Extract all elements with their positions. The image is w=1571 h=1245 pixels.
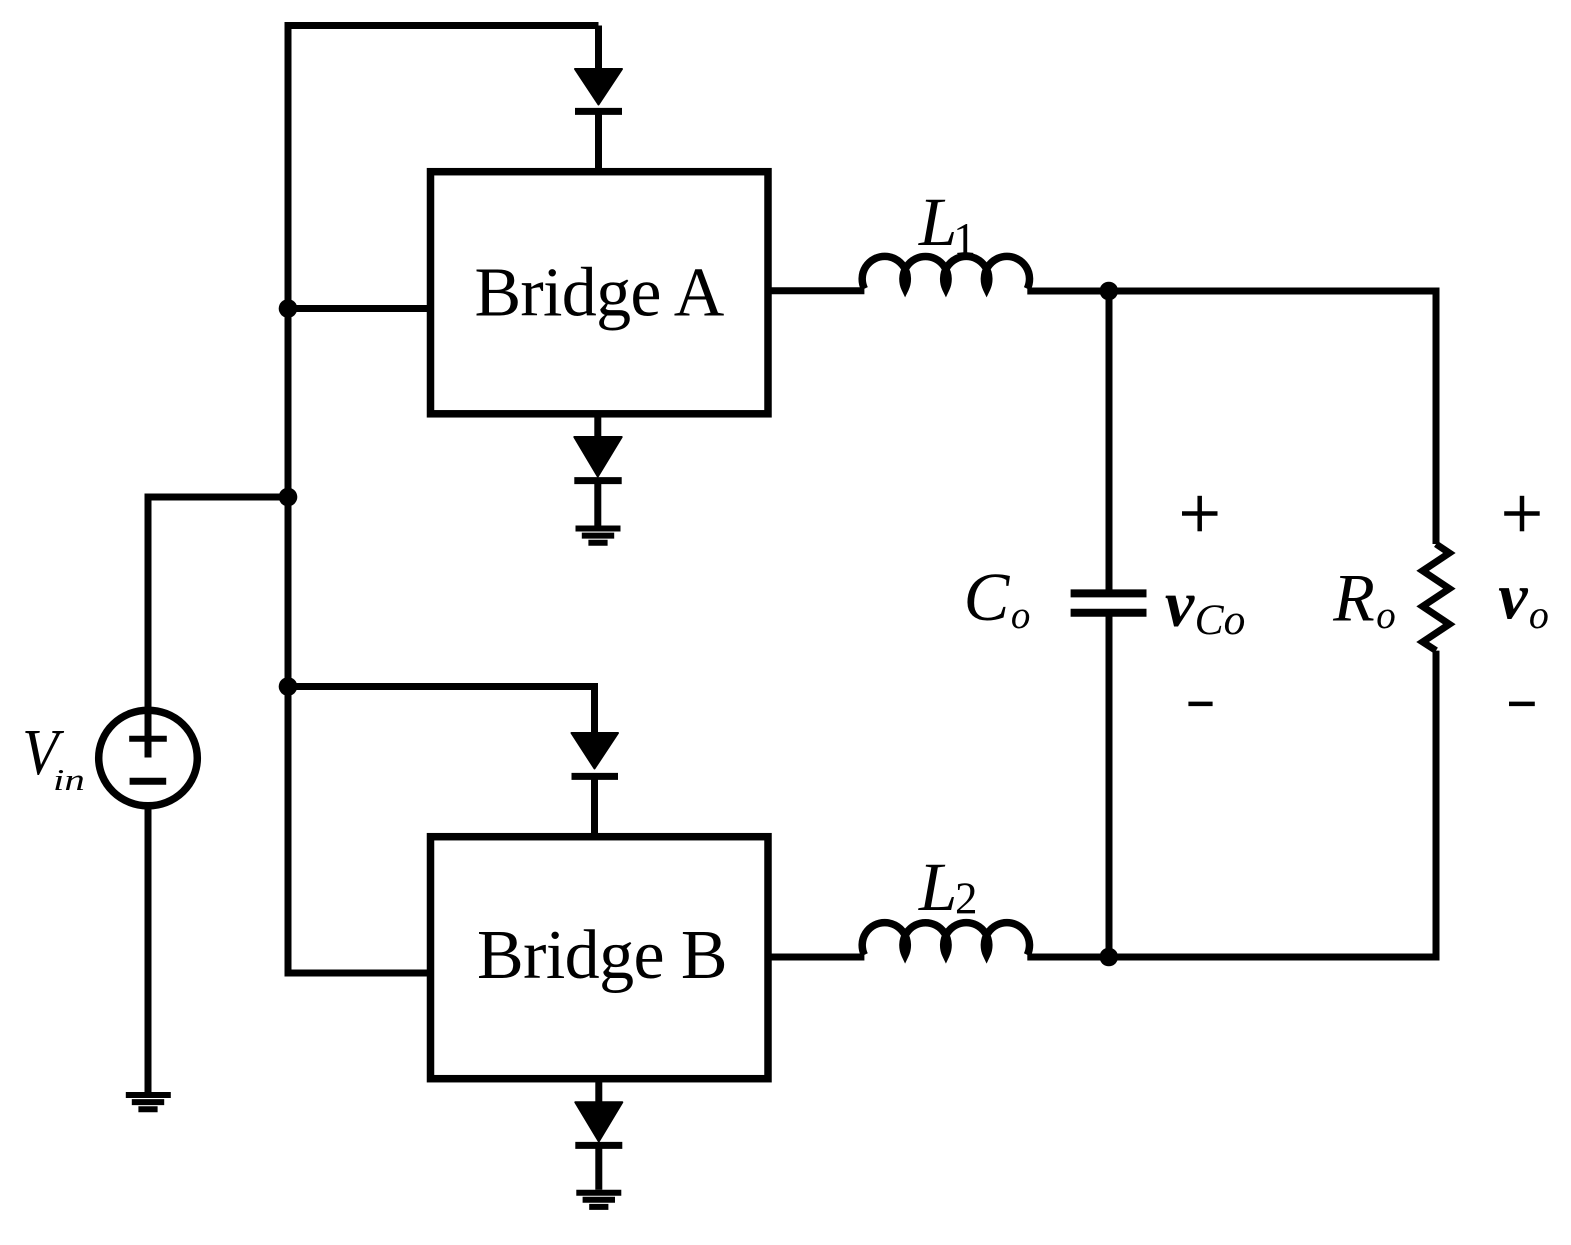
vCo plus sign — [1182, 496, 1218, 532]
node (L1 / Co top) — [1100, 282, 1119, 301]
Vin label — [22, 715, 85, 796]
wire top loop (rail + top wire + Bridge B input wire) — [288, 26, 599, 974]
vCo label — [1165, 568, 1245, 644]
wire Bridge A input — [288, 305, 431, 312]
wire Bridge B output — [768, 954, 864, 961]
diode D4 (Bridge B to ground) — [575, 1079, 622, 1190]
svg-text:in: in — [53, 762, 85, 796]
node (rail / Bridge A input) — [279, 299, 298, 318]
node (rail / Bridge B diode tap) — [279, 677, 298, 696]
capacitor Co — [1071, 593, 1147, 612]
vo label — [1498, 560, 1549, 637]
Ro label — [1332, 560, 1396, 638]
ground (Bridge A diode) — [576, 529, 621, 543]
svg-text:1: 1 — [953, 213, 976, 264]
svg-text:2: 2 — [955, 874, 978, 924]
svg-text:v: v — [1165, 568, 1195, 641]
svg-text:v: v — [1498, 560, 1528, 633]
ground (Vin) — [126, 1095, 171, 1109]
diode D1 (top of Bridge A) — [575, 69, 622, 172]
node (rail / Vin tap) — [279, 488, 298, 507]
diode D2 (Bridge A to ground) — [574, 414, 621, 526]
svg-text:o: o — [1011, 594, 1031, 637]
wire Co bottom lead — [1106, 613, 1113, 957]
Co label — [964, 559, 1031, 637]
svg-text:o: o — [1376, 594, 1396, 637]
wire Vin negative lead — [145, 806, 152, 1093]
inductor L1 — [862, 256, 1029, 288]
wire Vin positive lead — [148, 497, 288, 758]
inductor L2 — [862, 923, 1029, 955]
ground (Bridge B diode) — [576, 1193, 621, 1207]
vo plus sign — [1504, 496, 1540, 532]
diode D3 (top of Bridge B) — [572, 733, 619, 837]
wire Ro bottom lead and bottom output wire — [1027, 651, 1436, 957]
wire L1 to Ro corner — [1027, 291, 1436, 544]
L1 label — [918, 184, 976, 264]
svg-text:L: L — [918, 849, 957, 925]
wire diode D1 anode lead — [595, 26, 602, 71]
voltage source Vin — [99, 710, 198, 806]
Bridge B box — [431, 837, 769, 1079]
vo minus sign — [1509, 702, 1535, 707]
resistor Ro — [1423, 544, 1450, 651]
svg-text:Bridge A: Bridge A — [474, 255, 724, 332]
wire Co top lead — [1106, 291, 1113, 593]
svg-text:o: o — [1529, 592, 1549, 637]
svg-text:Bridge B: Bridge B — [477, 917, 727, 994]
svg-text:C: C — [964, 559, 1011, 635]
L2 label — [918, 849, 978, 925]
Bridge A box — [431, 172, 769, 414]
svg-text:Co: Co — [1195, 596, 1246, 644]
vCo minus sign — [1188, 702, 1212, 707]
svg-text:L: L — [918, 184, 957, 260]
wire Bridge A output — [768, 287, 864, 294]
wire Bridge B diode tap — [288, 687, 595, 734]
node (L2 / Co bottom) — [1100, 948, 1119, 967]
svg-text:R: R — [1332, 560, 1375, 636]
